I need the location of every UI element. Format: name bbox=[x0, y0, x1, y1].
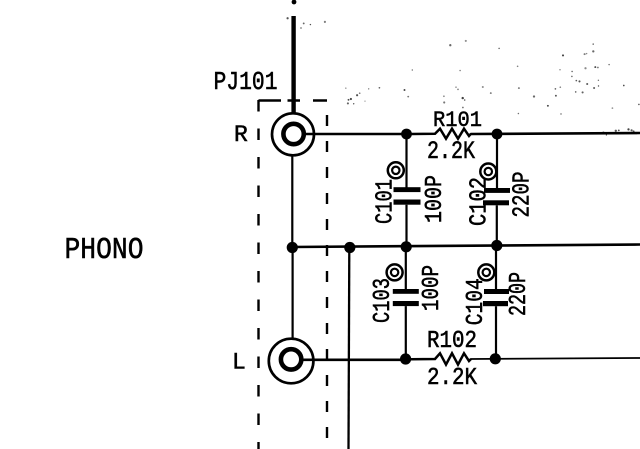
svg-text:R: R bbox=[234, 122, 248, 148]
svg-text:C102: C102 bbox=[466, 177, 493, 226]
wire: ground drop from bus to bottom edge bbox=[347, 247, 350, 449]
svg-text:2.2K: 2.2K bbox=[427, 137, 475, 166]
svg-text:C104: C104 bbox=[463, 278, 490, 325]
wire: R101 to right edge bbox=[471, 133, 640, 134]
connector PJ101 jack R bbox=[272, 113, 314, 155]
capacitor C102 bbox=[483, 134, 510, 246]
svg-text:PHONO: PHONO bbox=[65, 233, 144, 268]
dashed enclosure around PJ101 bbox=[259, 100, 328, 449]
wire: L jack tip to R102 bbox=[303, 358, 406, 361]
marker dot of C102 bbox=[480, 164, 496, 180]
resistor R102 bbox=[411, 353, 471, 364]
junction: R101 left node bbox=[401, 129, 412, 140]
wire: R jack tip to R101 bbox=[306, 133, 408, 136]
svg-text:220P: 220P bbox=[506, 272, 533, 316]
svg-text:L: L bbox=[232, 350, 246, 376]
junction: ground bus at jack column bbox=[287, 242, 298, 253]
wire: R jack sleeve down to ground bus bbox=[291, 155, 293, 247]
svg-text:C103: C103 bbox=[370, 278, 397, 323]
capacitor C101 bbox=[394, 134, 421, 247]
svg-text:PJ101: PJ101 bbox=[214, 67, 278, 97]
resistor R101 bbox=[411, 129, 471, 139]
junction: C101 bottom node bbox=[401, 241, 412, 252]
svg-text:C101: C101 bbox=[373, 179, 400, 224]
wire: ground bus (middle horizontal) bbox=[292, 245, 640, 248]
svg-text:220P: 220P bbox=[510, 172, 537, 218]
capacitor C103 bbox=[393, 247, 419, 360]
wire: ground bus to L jack (vertical) bbox=[292, 248, 294, 339]
svg-text:2.2K: 2.2K bbox=[427, 365, 478, 392]
connector PJ101 jack L bbox=[269, 339, 314, 384]
svg-text:R101: R101 bbox=[433, 108, 482, 133]
junction: C104 bottom node bbox=[490, 353, 501, 364]
junction: C103 bottom node bbox=[400, 353, 411, 364]
svg-text:R102: R102 bbox=[427, 328, 477, 355]
wire: R102 to right edge (faint scan) bbox=[471, 358, 640, 359]
marker dot of C101 bbox=[388, 162, 404, 178]
capacitor C104 bbox=[483, 246, 509, 360]
svg-text:100P: 100P bbox=[419, 265, 446, 311]
junction: ground bus at x350 drop bbox=[344, 242, 355, 253]
svg-text:100P: 100P bbox=[422, 175, 449, 223]
wire: input stub from top into R jack bbox=[292, 0, 297, 113]
marker dot of C104 bbox=[478, 264, 494, 280]
junction: R101 right node bbox=[492, 129, 503, 140]
marker dot of C103 bbox=[387, 264, 403, 280]
junction: C102 bottom node bbox=[491, 240, 502, 251]
